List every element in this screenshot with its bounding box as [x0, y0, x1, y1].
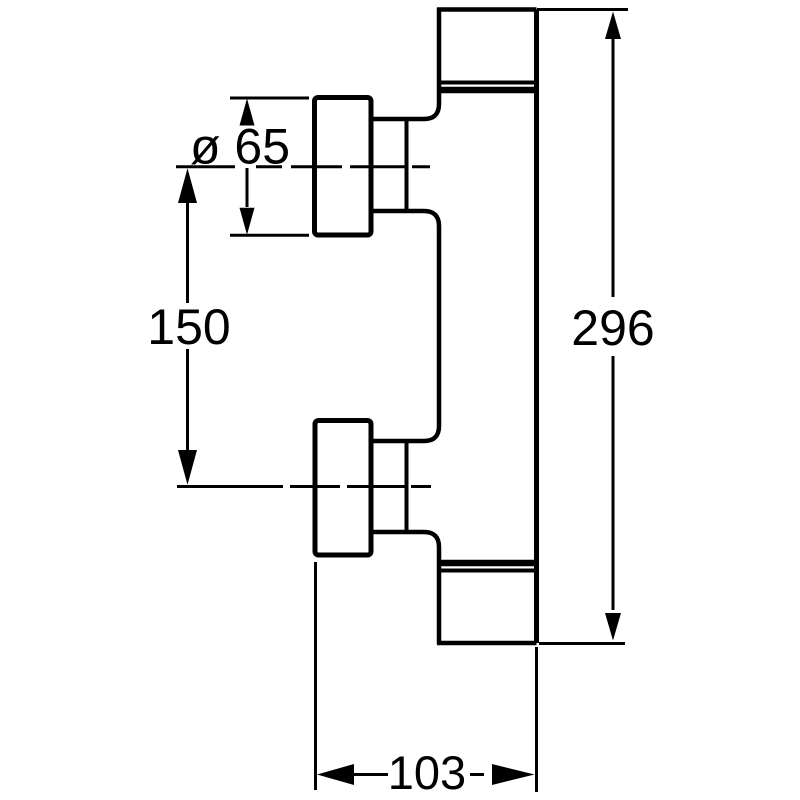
top knob: [315, 98, 372, 236]
dim150 arrow up: [178, 168, 197, 203]
dim296 dimension line: [612, 39, 615, 297]
dia65 arrow up: [240, 99, 255, 126]
dia65 extension line bottom: [230, 234, 309, 237]
body bottom edge: [437, 641, 537, 646]
dim103 arrow left: [317, 764, 354, 785]
top cap thin line: [439, 81, 537, 85]
body left edge upper with fillet to top boss: [373, 8, 439, 120]
bottom cap thick line: [437, 560, 537, 567]
bottom cap thin line: [439, 569, 537, 573]
dim103 dimension line: [352, 773, 388, 776]
dia65 dimension line: [246, 168, 249, 207]
svg-text:150: 150: [147, 299, 230, 355]
svg-text:296: 296: [571, 300, 654, 356]
dim296 arrow down: [605, 613, 621, 641]
dim296 extension line top: [537, 8, 628, 11]
bottom boss divider: [405, 441, 409, 532]
dim296 extension line bottom: [539, 642, 625, 645]
bottom centerline: [177, 485, 431, 488]
dia65 extension line top: [230, 97, 309, 100]
dim296 arrow up: [605, 12, 621, 40]
body top edge: [437, 7, 537, 12]
svg-text:ø 65: ø 65: [190, 119, 290, 175]
dim103 extension line right: [535, 647, 538, 792]
dim103 arrow right: [492, 764, 535, 785]
dia65 arrow down: [240, 208, 255, 235]
dim103 extension line left: [314, 562, 317, 790]
dim150 dimension line: [186, 203, 189, 303]
svg-text:103: 103: [388, 746, 466, 799]
top boss divider: [405, 119, 409, 211]
body left edge lower with fillet from bottom boss: [373, 532, 439, 644]
top cap thick line: [437, 87, 537, 94]
top centerline: [176, 165, 430, 168]
bottom knob: [315, 421, 371, 556]
dim150 arrow down: [178, 450, 197, 485]
body left edge middle between bosses with fillets: [373, 211, 439, 441]
body right edge: [534, 10, 539, 644]
